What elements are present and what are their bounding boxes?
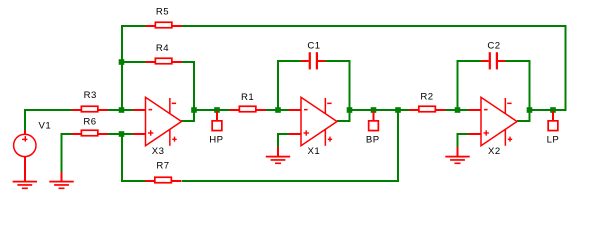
wire: V1 to R3 (minus row) [24, 109, 72, 111]
wire: X1 output node to R2 (through BP and R7 taps) [351, 109, 410, 111]
wire: right vertical from R5 row down to LP node [565, 25, 567, 111]
resistor R5 [146, 7, 183, 28]
wire: X2 inverting pin stub [469, 109, 482, 111]
resistor R4 [146, 43, 183, 64]
wire: X1 plus vertical to ground [277, 134, 279, 148]
resistor R1 [230, 92, 267, 112]
wire: V1 top vertical [24, 109, 26, 130]
wire: X1 non-inverting pin stub [289, 133, 302, 135]
junction: X2 inverting input node [455, 107, 461, 113]
port BP [366, 111, 380, 145]
wire: X1 inverting pin stub [289, 109, 302, 111]
svg-text:V1: V1 [38, 121, 51, 132]
junction: X1 inverting input node [275, 107, 281, 113]
svg-text:X2: X2 [488, 146, 501, 157]
wire: R6 to X3 non-inverting junction [108, 133, 134, 135]
wire: R4 row, right segment [182, 61, 195, 63]
wire: X2 output vertical up to node [529, 109, 531, 122]
junction: HP tap [214, 107, 220, 113]
wire: X3 non-inverting pin stub [133, 133, 146, 135]
junction: X3 non-inverting input node [119, 131, 125, 137]
wire: R6 ground corner to R6 (plus row) [61, 133, 73, 135]
resistor R2 [409, 91, 446, 111]
wire: R1 to X1 inverting junction [266, 109, 289, 111]
wire: C2 left vertical [457, 60, 459, 110]
svg-text:LP: LP [547, 134, 560, 145]
wire: X2 plus vertical to ground [457, 134, 459, 148]
junction: BP tap [371, 107, 377, 113]
svg-text:C2: C2 [487, 40, 500, 51]
ground GND (V1) [13, 181, 37, 189]
capacitor C2 [481, 40, 505, 69]
port LP [547, 111, 560, 145]
wire: C1 right vertical down to X1 output node [349, 60, 351, 110]
svg-text:C1: C1 [307, 40, 320, 51]
wire: R7 row, right segment [182, 180, 399, 182]
svg-text:R7: R7 [156, 160, 169, 171]
svg-text:R2: R2 [420, 91, 433, 102]
wire: R2 to X2 inverting junction [446, 109, 469, 111]
svg-text:R5: R5 [156, 7, 169, 18]
ground GND (X1 non-inverting) [266, 156, 290, 164]
port HP [209, 111, 223, 145]
wire: C1 left vertical [277, 60, 279, 110]
wire: R7 riser up to BP net [397, 109, 399, 182]
op-amp X2 [481, 97, 517, 157]
wire: X2 output node to right vertical (LP row) [531, 109, 567, 111]
wire: C1 row right segment [325, 60, 350, 62]
junction: X3 inverting input node [119, 107, 125, 113]
op-amp X1 [301, 97, 337, 157]
wire: R4 row, left segment [121, 61, 146, 63]
wire: R6 left vertical to ground [61, 135, 63, 172]
svg-text:X1: X1 [307, 146, 320, 157]
svg-text:R4: R4 [156, 43, 169, 54]
wire: X3 inverting-input vertical (R5/R4 node) [121, 27, 123, 111]
wire: X3 inverting pin stub [133, 109, 146, 111]
ground GND (R6) [49, 181, 73, 189]
wire: V1 top red pin stub [24, 130, 26, 135]
resistor R3 [72, 90, 109, 112]
wire: X1 plus ground red stub [277, 147, 279, 157]
resistor R7 [145, 160, 182, 182]
voltage source V1 [14, 121, 52, 182]
wire: X3 output vertical up to node [193, 109, 195, 122]
wire: R3 to X3 inverting junction [108, 109, 134, 111]
op-amp X3 [146, 97, 182, 157]
wire: R7 row, left segment [121, 180, 146, 182]
wire: X2 non-inverting pin stub [469, 133, 482, 135]
wire: X1 non-inverting horizontal [277, 133, 289, 135]
svg-text:R6: R6 [83, 117, 96, 128]
junction: X3 output / R4 node [191, 107, 197, 113]
wire: R4 right vertical down to X3 output node [193, 61, 195, 111]
wire: X1 output horizontal [337, 120, 351, 122]
wire: R5 feedback row, right segment [182, 25, 567, 27]
wire: C2 row left segment [457, 60, 482, 62]
svg-text:HP: HP [209, 134, 223, 145]
wire: X2 output horizontal [517, 120, 531, 122]
wire: R5 feedback row, left segment [121, 25, 146, 27]
svg-text:BP: BP [366, 134, 380, 145]
svg-text:R3: R3 [84, 90, 97, 101]
wire: C1 row left segment [277, 60, 301, 62]
junction: X2 output / C2 node [527, 107, 533, 113]
wire: X2 non-inverting horizontal [457, 133, 469, 135]
wire: X3 output node to R1 [195, 109, 230, 111]
ground GND (X2 non-inverting) [445, 156, 469, 164]
junction: X1 output / C1 node [347, 107, 353, 113]
wire: X1 output vertical up to node [349, 109, 351, 122]
resistor R6 [72, 117, 109, 136]
svg-text:X3: X3 [152, 146, 165, 157]
wire: C2 row right segment [505, 60, 530, 62]
junction: R4 tap on X3 inverting vertical [119, 59, 125, 65]
wire: X2 plus ground red stub [457, 147, 459, 157]
wire: X3 plus node vertical down to R7 row [121, 134, 123, 182]
junction: LP tap [550, 107, 556, 113]
wire: X3 output horizontal [181, 120, 195, 122]
junction: R7 riser tap [395, 107, 401, 113]
wire: R6 ground red stub [61, 172, 63, 182]
wire: C2 right vertical down to X2 output node [529, 60, 531, 110]
svg-text:R1: R1 [241, 92, 254, 103]
capacitor C1 [301, 40, 325, 69]
